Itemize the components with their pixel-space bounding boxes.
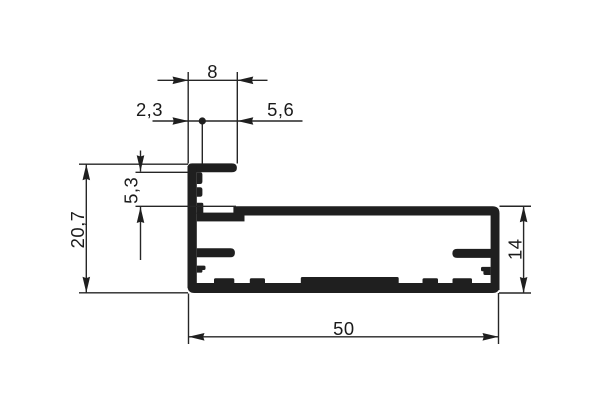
arrow dim 8 right (points left) [237,77,253,85]
arrow dim 5,3 top (points down) [137,155,145,171]
dim 5,3 ext line top [136,171,189,173]
svg-text:8: 8 [207,61,218,82]
dim 2,3 / 5,6 line [153,120,303,122]
ledge shelf [197,213,245,222]
arrow dim 20,7 top (points up) [83,164,91,180]
dim 20,7 line [85,165,87,293]
left wall [188,166,197,288]
dimension texts [67,61,525,339]
reference centreline from dot [201,121,203,164]
dim 14 ext line top [500,205,532,207]
arrowheads [83,77,528,341]
arrow dim 14 top (points up) [520,206,528,222]
dim 20,7 ext line top [79,163,188,165]
reference dot [199,117,206,124]
dim 14 line [523,206,525,293]
left tooth [197,266,206,273]
svg-text:20,7: 20,7 [67,211,88,249]
right finger [452,249,491,258]
profile body (aluminium extrusion cross-section) [188,163,500,293]
svg-text:14: 14 [504,239,525,260]
dim 8 ext line right [236,72,238,164]
tooth 1 under hook [197,172,203,184]
bottom bump 4 [453,278,473,284]
svg-text:50: 50 [333,318,354,339]
arrow dim 5,3 bottom (points up) [137,207,145,223]
dim 8 line [158,79,268,81]
dim 50 ext line right [498,293,500,344]
dim 50 ext line left [188,294,190,345]
dim 5,3 leader above [140,151,142,172]
right tooth [481,267,491,275]
bottom bump 1 [214,278,234,284]
bottom bump 3 [423,278,439,284]
dimension linework [79,72,531,344]
tooth 2 under hook [197,187,203,197]
arrow dim 20,7 bottom (points down) [83,277,91,293]
arrow dim 2,3 (points right) [173,117,189,125]
wall bump above ledge [197,203,204,214]
svg-text:5,6: 5,6 [267,99,294,120]
arrow dim 5,6 (points left) [237,117,253,125]
bottom wall [188,283,500,293]
dim 5,3 ext line bottom [136,205,237,207]
dim 8 ext line left [187,72,189,164]
bottom raised middle section [301,277,399,284]
dim 5,3 leader below [140,207,142,260]
svg-text:2,3: 2,3 [136,99,163,120]
dim 50 line [189,336,499,338]
top wall and right wall [233,206,499,290]
arrow dim 14 bottom (points down) [520,277,528,293]
hook bar top-left [188,163,237,172]
arrow dim 8 left (points right) [173,77,189,85]
bottom bump 2 [250,278,265,284]
dim 20,7 ext line bottom [79,292,188,294]
arrow dim 50 left (points left) [189,333,205,341]
left finger [197,248,235,257]
dim 14 ext line bottom [499,292,531,294]
arrow dim 50 right (points right) [483,333,499,341]
svg-text:5,3: 5,3 [121,177,142,204]
